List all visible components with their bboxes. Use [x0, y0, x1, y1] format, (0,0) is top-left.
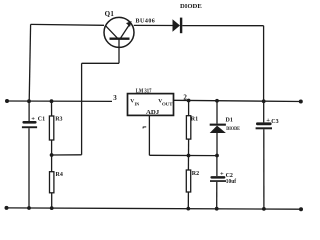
svg-text:3: 3: [113, 94, 117, 102]
diode D1: [210, 101, 226, 156]
resistor R1: [186, 101, 190, 156]
diode D2 top: [173, 18, 183, 34]
node bus left terminal: [5, 206, 9, 210]
wire ADJ horizontal: [149, 154, 217, 156]
LM317 regulator U1: [128, 94, 174, 116]
wire left vertical: [29, 24, 30, 101]
wire ADJ vertical: [148, 116, 150, 156]
capacitor C1: [22, 101, 37, 208]
node junction R1/R2 ADJ: [187, 154, 191, 158]
node junction R3/R4: [50, 153, 54, 157]
node bus C2: [215, 207, 219, 211]
svg-text:ADJ: ADJ: [146, 109, 159, 116]
node output terminal: [299, 100, 303, 104]
resistor R4: [50, 155, 54, 208]
svg-text:DIODE: DIODE: [226, 126, 240, 132]
pin ADJ tick: [143, 127, 146, 128]
svg-text:2: 2: [183, 94, 187, 102]
node bus R4: [50, 206, 54, 210]
svg-text:BU406: BU406: [136, 19, 155, 25]
svg-text:R2: R2: [192, 171, 199, 177]
node bus right terminal: [299, 207, 303, 211]
svg-text:C1: C1: [38, 117, 45, 123]
capacitor C3: [256, 101, 272, 209]
node junction right-vertical/output: [262, 99, 266, 103]
svg-text:D1: D1: [226, 118, 233, 124]
svg-text:OUT: OUT: [162, 101, 173, 106]
node junction C1 top: [27, 99, 31, 103]
svg-text:R3: R3: [55, 117, 62, 123]
wire Q1 emitter to diode: [134, 24, 173, 26]
transistor Q1: [104, 17, 134, 63]
resistor R3: [49, 101, 53, 155]
wire output rail: [174, 100, 302, 101]
svg-text:R1: R1: [191, 116, 198, 122]
capacitor C2: [210, 156, 226, 209]
svg-text:+: +: [266, 117, 270, 124]
node bus C3: [262, 207, 266, 211]
wire right vertical: [263, 26, 265, 102]
svg-text:Q1: Q1: [105, 10, 115, 18]
node input terminal: [5, 99, 9, 103]
svg-text:+: +: [31, 115, 35, 122]
resistor R2: [186, 156, 190, 209]
node bus R2: [186, 207, 190, 211]
wire base jog vertical: [81, 63, 83, 155]
node junction D1 top: [215, 99, 219, 103]
svg-text:LM 317: LM 317: [136, 89, 152, 95]
svg-text:C3: C3: [271, 119, 278, 125]
node junction R3 top: [50, 99, 54, 103]
wire top-left horizontal: [31, 23, 104, 26]
wire diode to right corner: [182, 25, 263, 27]
svg-text:+: +: [220, 170, 224, 177]
svg-text:R4: R4: [56, 172, 63, 178]
svg-text:10uf: 10uf: [226, 179, 237, 185]
node junction R1 top: [187, 99, 191, 103]
node bus C1: [27, 206, 31, 210]
wire jog to R3/R4 junction: [52, 154, 82, 156]
svg-text:DIODE: DIODE: [180, 3, 202, 10]
node junction D1/C2 ADJ: [215, 154, 219, 158]
wire base jog horizontal: [82, 62, 119, 64]
wire input left to pin3: [7, 100, 112, 102]
wire ground bus: [6, 208, 301, 209]
svg-text:IN: IN: [135, 101, 140, 106]
